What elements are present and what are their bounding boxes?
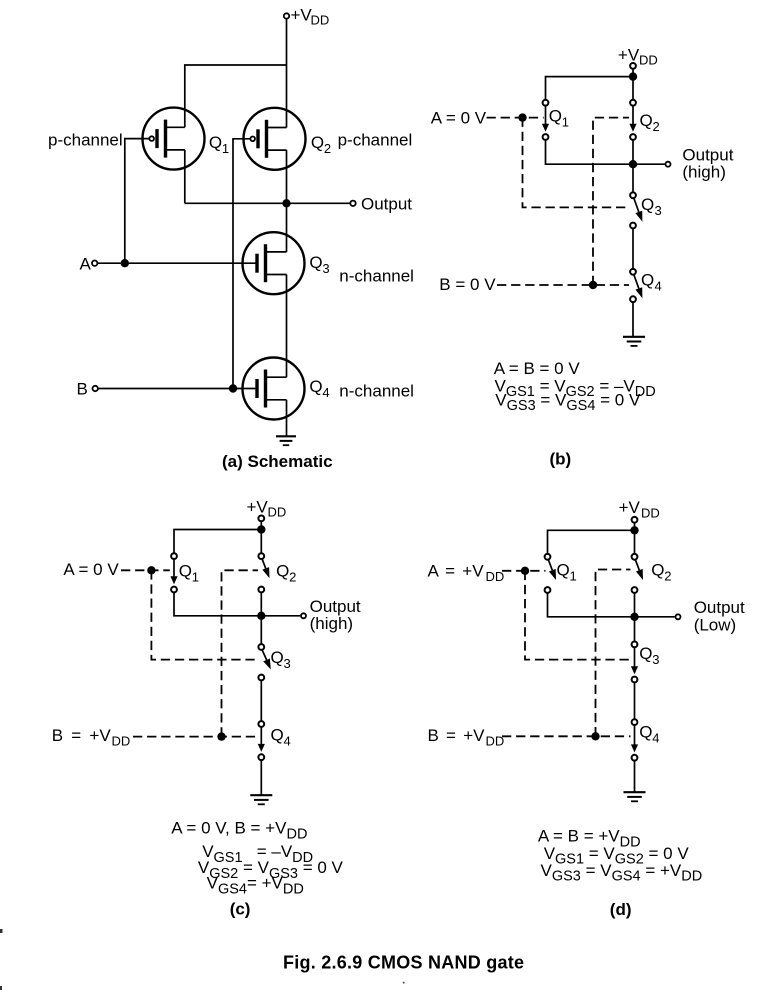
svg-text:(high): (high) (682, 163, 725, 182)
svg-text:(b): (b) (550, 450, 572, 469)
node +VDD terminal (b) (630, 63, 636, 69)
wire Q2 source down to Q3 drain (286, 150, 288, 252)
wire dashed A to Q1 (c) (121, 569, 170, 571)
switch Q2 open (d) (632, 554, 643, 593)
speck below caption (403, 982, 405, 984)
transistor Q4 (n-channel) (243, 358, 305, 420)
wire VDD down to Q2 switch (c) (260, 522, 262, 553)
svg-text:DD: DD (311, 13, 330, 28)
wire Q2 down through output to Q3 (d) (634, 593, 636, 641)
transistor Q3 (n-channel) (243, 232, 305, 294)
node Output terminal (d) (676, 614, 681, 619)
ground (a) (276, 436, 296, 445)
switch Q1 closed (c) (170, 553, 177, 592)
wire output lead (d) (635, 616, 675, 618)
svg-text:4: 4 (655, 279, 662, 294)
wire dashed B up and to Q2 (593, 118, 629, 285)
switch Q3 closed (d) (631, 642, 638, 683)
junction output node (b) (629, 160, 637, 168)
svg-text:+V: +V (247, 498, 269, 517)
junction output node (c) (257, 612, 265, 620)
wire Q3 to Q4 (c) (260, 681, 262, 721)
junction A dashed (c) (147, 566, 155, 574)
svg-text:DD: DD (641, 505, 660, 520)
svg-text:Q: Q (209, 133, 222, 152)
svg-text:Q: Q (640, 111, 653, 130)
svg-text:1: 1 (562, 115, 569, 130)
svg-text:1: 1 (222, 141, 229, 156)
svg-text:Q: Q (179, 562, 192, 581)
wire Q4 source to ground (286, 400, 288, 437)
node B terminal (93, 386, 98, 391)
wire Q3 to Q4 (d) (634, 683, 636, 719)
svg-text:Output: Output (361, 194, 412, 213)
wire Q1 to output node (c) (174, 593, 261, 616)
switch Q3 open (c) (258, 644, 270, 680)
wire dashed A down and to Q3 (c) (151, 570, 258, 659)
speck left margin upper (0, 929, 3, 933)
svg-text:Q: Q (641, 271, 654, 290)
ground (b) (623, 337, 645, 346)
switch Q2 open (c) (258, 553, 269, 592)
wire output line (185, 202, 350, 204)
wire dashed A to Q1 (d) (502, 570, 546, 572)
wire output lead (c) (261, 615, 300, 617)
ground (d) (624, 792, 646, 801)
switch Q2 closed (b) (629, 100, 636, 140)
svg-text:(c): (c) (230, 900, 251, 919)
wire Q4 to ground (d) (634, 761, 636, 792)
ground (c) (250, 795, 272, 804)
svg-text:Q: Q (276, 562, 289, 581)
svg-text:DD: DD (268, 505, 287, 520)
svg-text:3: 3 (322, 261, 329, 276)
wire VDD down to Q2 switch (d) (634, 523, 636, 553)
svg-text:(Low): (Low) (694, 615, 737, 634)
svg-text:3: 3 (652, 652, 659, 667)
svg-text:4: 4 (284, 734, 291, 749)
wire output lead (b) (633, 163, 665, 165)
junction A dashed (d) (521, 567, 529, 575)
wire dashed A down and to Q3 (523, 118, 630, 208)
svg-text:A = B = 0 V: A = B = 0 V (494, 359, 581, 378)
node Output terminal (a) (350, 201, 355, 206)
wire Q3 source down to Q4 drain (286, 275, 288, 378)
junction B / Q2 gate (229, 384, 237, 392)
svg-text:4: 4 (652, 730, 659, 745)
junction B dashed (b) (589, 281, 597, 289)
svg-text:A: A (80, 254, 92, 273)
svg-text:p-channel: p-channel (48, 130, 123, 149)
transistor Q2 (p-channel) (244, 108, 306, 170)
switch Q3 open (b) (630, 192, 642, 228)
svg-text:B = +V: B = +V (52, 726, 112, 745)
speck left margin lower (0, 986, 2, 990)
wire VDD branch to Q1 switch (546, 77, 634, 100)
svg-text:4: 4 (322, 385, 329, 400)
svg-text:2: 2 (289, 570, 296, 585)
wire dashed B up and to Q2 (d) (596, 570, 631, 737)
junction VDD branch (c) (257, 525, 265, 533)
junction VDD branch (b) (629, 72, 637, 80)
node +VDD terminal (d) (632, 517, 638, 523)
wire Q4 to ground (b) (632, 302, 634, 336)
junction B dashed (d) (591, 732, 599, 740)
switch Q1 open (d) (545, 554, 556, 593)
svg-text:(high): (high) (310, 614, 353, 633)
svg-text:3: 3 (655, 203, 662, 218)
svg-text:Fig. 2.6.9 CMOS NAND gate: Fig. 2.6.9 CMOS NAND gate (283, 952, 524, 972)
node Output terminal (c) (301, 613, 306, 618)
wire dashed B to Q4 (d) (502, 735, 631, 737)
node Output terminal (b) (666, 162, 671, 167)
wire dashed B up and to Q2 (c) (222, 570, 259, 736)
svg-text:A = +V: A = +V (428, 561, 485, 580)
svg-text:n-channel: n-channel (339, 266, 414, 285)
svg-text:1: 1 (192, 570, 199, 585)
junction A dashed (b) (518, 113, 526, 121)
svg-text:A = 0 V: A = 0 V (431, 109, 487, 128)
wire Q3 to Q4 (b) (632, 229, 634, 269)
switch Q4 closed (d) (631, 719, 638, 760)
svg-text:Q: Q (271, 648, 284, 667)
svg-text:(a) Schematic: (a) Schematic (222, 452, 333, 471)
wire Q4 to ground (c) (260, 760, 262, 794)
svg-text:Q: Q (639, 644, 652, 663)
svg-text:Q: Q (309, 377, 322, 396)
wire VDD vertical to Q2 drain (286, 19, 288, 127)
svg-text:+V: +V (619, 498, 641, 517)
wire dashed A to Q1 (487, 117, 544, 119)
svg-text:Q: Q (639, 722, 652, 741)
svg-text:B = 0 V: B = 0 V (439, 275, 496, 294)
wire Q1 gate to node A (125, 139, 149, 264)
svg-text:Q: Q (271, 726, 284, 745)
junction B dashed (c) (217, 732, 225, 740)
svg-text:Q: Q (641, 195, 654, 214)
wire dashed B to Q4 (497, 284, 629, 286)
svg-text:1: 1 (570, 569, 577, 584)
svg-text:Q: Q (309, 253, 322, 272)
wire VDD branch to Q1 switch (c) (174, 530, 261, 553)
switch Q4 open (b) (630, 269, 642, 302)
switch Q1 closed (b) (542, 100, 549, 140)
wire VDD down to Q2 switch (632, 69, 634, 99)
svg-text:n-channel: n-channel (339, 382, 414, 401)
junction A / Q1 gate (121, 259, 129, 267)
wire input A to Q3 gate (98, 262, 257, 264)
svg-text:+V: +V (291, 6, 313, 25)
svg-text:Q: Q (549, 107, 562, 126)
svg-text:3: 3 (284, 656, 291, 671)
svg-text:Q: Q (651, 561, 664, 580)
node +VDD terminal (c) (258, 516, 264, 522)
svg-text:2: 2 (653, 119, 660, 134)
svg-text:(d): (d) (610, 900, 632, 919)
wire input B to Q4 gate (98, 388, 257, 390)
wire Q2 down through output to Q3 (b) (632, 140, 634, 192)
svg-text:DD: DD (112, 734, 131, 749)
transistor Q1 (p-channel) (143, 108, 205, 170)
junction VDD branch (d) (630, 526, 638, 534)
svg-text:2: 2 (664, 569, 671, 584)
svg-text:DD: DD (486, 569, 505, 584)
wire Q1 drain up and across to VDD (185, 65, 287, 127)
wire Q1 to output node (d) (548, 593, 635, 617)
svg-text:Q: Q (311, 133, 324, 152)
svg-text:B = +V: B = +V (428, 726, 486, 745)
node +VDD terminal (a) (284, 13, 289, 18)
wire dashed B to Q4 (c) (133, 736, 258, 738)
wire Q1 to output node (b) (546, 140, 634, 164)
svg-text:A = 0 V: A = 0 V (63, 560, 119, 579)
svg-text:Output: Output (694, 598, 745, 617)
svg-text:Q: Q (557, 561, 570, 580)
svg-text:+V: +V (618, 45, 640, 64)
wire Q2 down through output to Q3 (c) (260, 593, 262, 644)
wire dashed A down and to Q3 (d) (525, 571, 631, 660)
wire VDD branch to Q1 switch (d) (548, 530, 635, 553)
svg-text:DD: DD (486, 733, 505, 748)
junction output node (282, 199, 290, 207)
svg-text:B: B (77, 380, 88, 399)
svg-text:DD: DD (639, 53, 658, 68)
node A terminal (92, 261, 97, 266)
svg-text:p-channel: p-channel (338, 130, 413, 149)
wire Q2 gate to node B (233, 139, 250, 389)
svg-text:2: 2 (324, 141, 331, 156)
junction output node (d) (630, 613, 638, 621)
switch Q4 closed (c) (258, 721, 265, 760)
wire Q1 source down to output line (184, 150, 186, 203)
